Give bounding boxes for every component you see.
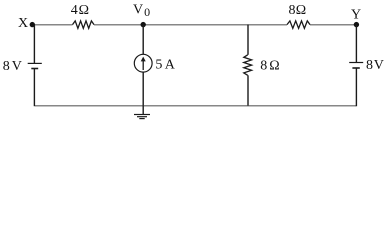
svg-text:8Ω: 8Ω	[260, 59, 280, 74]
wire top rail middle segment	[94, 24, 287, 26]
svg-text:8V: 8V	[3, 59, 22, 74]
ground	[134, 106, 150, 119]
wire left vertical upper (X to battery)	[33, 25, 35, 64]
wire left vertical lower (battery to bottom rail)	[33, 69, 35, 107]
svg-text:V: V	[133, 3, 143, 18]
resistor 8Ω top	[287, 21, 310, 28]
node Y	[351, 7, 361, 27]
wire top rail right segment	[310, 24, 356, 26]
node V0	[133, 3, 150, 28]
wire right vertical upper (Y to battery)	[355, 25, 357, 63]
svg-text:8Ω: 8Ω	[289, 3, 307, 18]
wire current source down to bottom rail	[142, 72, 144, 106]
node X	[18, 16, 35, 31]
wire top rail left segment	[33, 24, 73, 26]
wire V0 down to current source	[142, 25, 144, 55]
wire junction vertical lower (resistor to bottom rail)	[247, 75, 249, 105]
battery 8V right	[349, 63, 363, 69]
svg-text:8V: 8V	[366, 58, 384, 73]
svg-text:Y: Y	[351, 7, 361, 22]
resistor 4Ω	[73, 21, 95, 28]
wire junction vertical upper (top rail to resistor)	[247, 25, 249, 55]
svg-text:4Ω: 4Ω	[71, 3, 89, 18]
svg-text:X: X	[18, 16, 28, 31]
svg-text:0: 0	[144, 5, 150, 19]
resistor 8Ω vertical	[244, 55, 252, 76]
battery 8V left	[28, 63, 42, 68]
current source 5A	[134, 54, 152, 72]
wire bottom rail	[35, 105, 357, 107]
wire right vertical lower (battery to bottom rail)	[355, 68, 357, 106]
svg-text:5A: 5A	[155, 58, 175, 73]
